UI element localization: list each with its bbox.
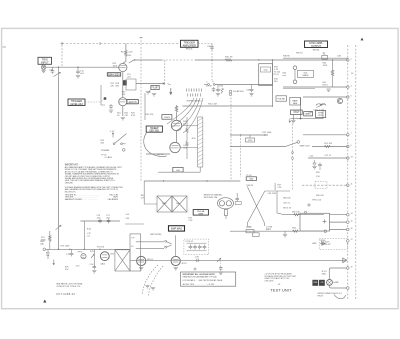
- svg-text:LAMP: LAMP: [334, 281, 340, 284]
- cathode resistor labels: [117, 113, 136, 117]
- svg-text:1M: 1M: [128, 55, 131, 57]
- tube V24B: [119, 98, 127, 106]
- switch SW25: [113, 134, 126, 145]
- svg-text:4.7K: 4.7K: [274, 69, 279, 71]
- wire: dashed bus 2: [355, 45, 357, 300]
- svg-text:27K: 27K: [122, 94, 126, 96]
- svg-text:R60 10K: R60 10K: [292, 212, 300, 214]
- resistor R30 on trigger rail: [225, 57, 233, 62]
- wire: drop from sync boxes with ground: [292, 114, 294, 120]
- wire: V2 cathode down to resistor chain: [122, 106, 124, 116]
- connector J1 body: [41, 65, 45, 69]
- block label RATE GEN: [290, 98, 301, 106]
- power supply box: [300, 213, 330, 231]
- tick on left border: [3, 46, 7, 48]
- resistor R60: [292, 212, 300, 216]
- svg-text:AMPLIFIER: AMPLIFIER: [183, 45, 196, 48]
- signal entry arrow: [170, 88, 172, 95]
- svg-text:C45: C45: [126, 218, 131, 220]
- svg-text:R72 100K: R72 100K: [61, 245, 71, 247]
- svg-text:.001: .001: [127, 77, 132, 79]
- svg-text:SN 101-UP: SN 101-UP: [321, 244, 331, 246]
- wire: second vertical x145: [144, 93, 146, 120]
- node junction on input line: [58, 67, 59, 68]
- terminal at right end of trigger rail: [347, 59, 350, 62]
- variable capacitor C40 arcs: [316, 104, 326, 108]
- wire: sync line y87: [283, 86, 348, 88]
- dashed note box: [319, 238, 347, 249]
- shield line above rail: [283, 57, 348, 59]
- power transformer tall box: [130, 234, 141, 271]
- note text block right: [264, 272, 297, 286]
- svg-text:6: 6: [351, 95, 352, 97]
- wire: plate supply drop: [125, 44, 127, 51]
- wire: dashed vertical x164.8: [164, 60, 166, 84]
- connector P1 pin ticks: [187, 89, 202, 97]
- svg-text:13: 13: [351, 156, 353, 158]
- svg-text:C65 4700: C65 4700: [268, 193, 278, 195]
- wire: jack to plug: [294, 70, 296, 81]
- capacitor C10: [49, 67, 54, 74]
- wire: line y135: [230, 134, 268, 136]
- svg-text:TP50 C56: TP50 C56: [312, 200, 322, 202]
- wire: plate output of V24A to trigger rail: [129, 60, 162, 63]
- revision triangle bottom-left: [43, 300, 46, 303]
- svg-text:R74 1M: R74 1M: [97, 247, 104, 249]
- node junction dots on y181: [163, 180, 164, 181]
- terminal swp out: [297, 141, 300, 144]
- svg-text:C: C: [206, 82, 208, 84]
- transformer T44 cell 2: [172, 196, 187, 212]
- svg-text:6AL5: 6AL5: [101, 263, 107, 266]
- svg-text:11: 11: [351, 184, 353, 186]
- terminal circle TP25: [122, 149, 125, 152]
- svg-text:R54: R54: [316, 172, 321, 174]
- svg-text:17: 17: [351, 239, 353, 241]
- stamp POWER dark box: [312, 280, 318, 286]
- svg-text:2.5K: 2.5K: [90, 264, 95, 266]
- svg-text:68: 68: [156, 87, 159, 89]
- node junction dark dot: [104, 97, 107, 100]
- svg-text:4: 4: [351, 85, 352, 87]
- svg-text:-1.5 AVG: -1.5 AVG: [104, 156, 112, 159]
- node dot at long vertical junction: [58, 249, 60, 251]
- ground arrow at line end: [289, 119, 291, 123]
- wire: feeder lines to right bus: [303, 134, 348, 136]
- svg-text:R45: R45: [192, 138, 197, 140]
- svg-text:15: 15: [351, 220, 353, 222]
- fuse F1: [322, 53, 328, 60]
- svg-text:LEVEL ADJ: LEVEL ADJ: [70, 103, 83, 106]
- svg-text:C25 47: C25 47: [206, 86, 213, 88]
- capacitor C70: [97, 215, 102, 223]
- capacitor C78 on bus: [195, 257, 200, 263]
- svg-text:(TD1): (TD1): [274, 74, 279, 76]
- ground under V72: [174, 268, 178, 270]
- wire: output line y97: [303, 96, 348, 98]
- wire: EXT drop with arrow: [48, 249, 55, 264]
- svg-text:C49 B+: C49 B+: [157, 154, 165, 156]
- cable note box: [298, 70, 314, 77]
- wire: dashed bus 1: [347, 45, 349, 300]
- crossover wires big X: [247, 187, 290, 227]
- inductor L40 box: [173, 167, 183, 172]
- wire: line y214.7: [284, 214, 324, 216]
- terminal output line: [347, 96, 350, 99]
- svg-text:8.2K: 8.2K: [131, 115, 136, 117]
- wire: dashed cable curves bottom-left: [142, 265, 163, 297]
- svg-text:OUTPUT: OUTPUT: [311, 45, 321, 48]
- svg-text:56K: 56K: [101, 143, 105, 145]
- svg-text:1K: 1K: [117, 115, 120, 117]
- svg-text:243: 243: [274, 81, 278, 83]
- wire: line y231.2 long: [230, 230, 325, 232]
- svg-text:WITH SWP CAL: WITH SWP CAL: [204, 196, 218, 199]
- terminal pair on dashed bus x231: [229, 90, 232, 93]
- wire: bottom of delay line across: [158, 167, 200, 172]
- svg-text:LINE: LINE: [312, 243, 317, 245]
- svg-text:R51 10K: R51 10K: [324, 143, 332, 145]
- small box TP60: [253, 233, 260, 237]
- svg-text:TP70: TP70: [78, 252, 84, 254]
- svg-text:B+: B+: [131, 246, 134, 248]
- wire: switch to V72 grid: [174, 235, 176, 256]
- capacitor C66 with box: [235, 193, 241, 205]
- svg-text:GEN SN1: GEN SN1: [149, 131, 160, 133]
- capacitor C73: [66, 249, 73, 256]
- svg-text:SN 101: SN 101: [186, 49, 194, 51]
- node dots on line y135: [240, 134, 241, 135]
- svg-text:MARKER/TRIGGER . . . . . . . .: MARKER/TRIGGER . . . . . . . . . . . . .…: [65, 198, 97, 201]
- block label PULSE SHAPER: [276, 96, 287, 101]
- block label dark SWEEP MAG: [169, 226, 185, 231]
- svg-text:R26: R26: [219, 86, 224, 88]
- potentiometer R73 with arrow: [91, 249, 94, 267]
- dual potentiometer R45 oval: [218, 198, 234, 209]
- wire: loop arc under indicator: [334, 294, 346, 298]
- capacitor under pot with ground: [92, 265, 96, 273]
- control label box LEVEL ADJ: [68, 99, 104, 106]
- block label TRIGGER AMPLIFIER: [181, 40, 199, 50]
- stamp ON dark box: [319, 280, 325, 286]
- transformer T44 cell 1: [157, 196, 172, 212]
- svg-text:C1001: C1001: [164, 117, 171, 119]
- svg-text:470: 470: [125, 115, 129, 117]
- svg-text:100K: 100K: [113, 65, 118, 67]
- svg-text:CEDURE.: CEDURE.: [65, 182, 74, 184]
- wire: dashed vertical x231: [230, 98, 232, 181]
- wire: dashed vertical x212: [211, 44, 213, 83]
- svg-text:AMPL: AMPL: [305, 113, 311, 116]
- wire: vertical into T44: [144, 181, 157, 204]
- svg-text:R73: R73: [90, 251, 95, 253]
- svg-text:C75: C75: [76, 266, 81, 268]
- variable capacitor C11 arrow: [54, 67, 61, 77]
- svg-text:16: 16: [351, 228, 353, 230]
- switch C+O: [204, 84, 215, 86]
- capacitor C55 stub: [318, 163, 322, 170]
- transistor Q40: [337, 98, 342, 103]
- small dashed box note: [315, 181, 327, 188]
- svg-text:120K: 120K: [323, 65, 328, 67]
- svg-text:SWP NORM: SWP NORM: [150, 234, 162, 236]
- svg-text:F1: F1: [323, 53, 326, 56]
- resistor R43: [175, 105, 177, 113]
- ground under V71: [139, 268, 143, 270]
- node junction dots on trigger rail: [134, 59, 135, 60]
- svg-text:CAL/BRATE: CAL/BRATE: [108, 198, 119, 201]
- resistor R51 on feeder: [324, 143, 332, 147]
- svg-text:POWER: POWER: [101, 150, 110, 152]
- wire: dashed rail segment: [162, 59, 195, 61]
- svg-text:SWP: SWP: [162, 203, 167, 205]
- connector J1 label box TRIG INPUT: [38, 57, 52, 64]
- svg-text:T70: T70: [131, 238, 134, 240]
- capacitor C33 to ground: [246, 85, 254, 96]
- svg-text:B24A 162V: B24A 162V: [108, 73, 120, 76]
- svg-text:B70: B70: [111, 254, 115, 256]
- svg-text:470: 470: [110, 86, 114, 88]
- svg-text:GEN: GEN: [198, 214, 203, 216]
- svg-text:C66 .01: C66 .01: [283, 203, 290, 205]
- svg-text:9: 9: [351, 145, 352, 147]
- svg-text:SYNC: SYNC: [294, 112, 300, 114]
- svg-text:READINGS IN DIAGRAM ARE TYPIC: READINGS IN DIAGRAM ARE TYPICAL: [183, 276, 217, 279]
- diode box TD1: [274, 72, 281, 77]
- terminal left end: [43, 248, 46, 251]
- svg-text:ALONG TRIG . . . . . . . . . .: ALONG TRIG . . . . . . . . . . . . +11 P…: [183, 283, 215, 286]
- wire: feeder y185: [302, 184, 348, 186]
- wire: calibrator line y249.3: [45, 248, 130, 250]
- terminal box TP40: [246, 175, 256, 181]
- terminal at right of y231 line: [324, 230, 327, 233]
- svg-text:R52 100K: R52 100K: [263, 132, 273, 134]
- terminal arrow at bus right: [343, 258, 347, 263]
- svg-text:SWP MAG: SWP MAG: [171, 228, 183, 231]
- pot arrow on left vertical: [56, 225, 62, 230]
- svg-text:.001: .001: [80, 73, 85, 75]
- label box C1001: [162, 115, 172, 120]
- node tick x168: [168, 84, 171, 86]
- pin number labels on bus: [351, 58, 353, 268]
- svg-text:CABLE: CABLE: [302, 74, 309, 77]
- wire: long heater bus y260.3: [130, 259, 346, 261]
- wire: vertical feed x141 dashed: [140, 37, 142, 181]
- wire: vertical x272.5: [272, 60, 274, 107]
- svg-text:686L: 686L: [322, 274, 326, 276]
- svg-text:19: 19: [351, 266, 353, 268]
- svg-text:Ø 7V: Ø 7V: [182, 263, 188, 265]
- delay network box: [259, 64, 273, 86]
- wire: line y181 horizontal: [144, 180, 240, 182]
- ground at J1: [41, 70, 45, 72]
- svg-text:C78: C78: [195, 257, 200, 259]
- resistor R50 box type 4700: [246, 135, 255, 142]
- capacitor C71: [106, 215, 111, 223]
- delay line hatched bar: [198, 117, 203, 167]
- block label box mid-right: [316, 111, 326, 118]
- wire: right vertical from C65 line: [277, 191, 284, 215]
- revision triangle top-right: [361, 38, 364, 41]
- svg-text:B.05: B.05: [87, 229, 92, 231]
- svg-text:-1.5V: -1.5V: [110, 131, 115, 133]
- svg-text:50Ω: 50Ω: [264, 70, 268, 72]
- wire: left stub x101: [101, 85, 105, 105]
- svg-text:TEST UNIT: TEST UNIT: [270, 289, 292, 293]
- tube V71: [137, 256, 146, 265]
- diode cluster right: [320, 242, 326, 245]
- wire: tube plates to delay line: [180, 126, 197, 148]
- block label SWEEP GENERATOR: [146, 126, 162, 133]
- wire: dashed link right of trigger box: [198, 43, 212, 45]
- wire: return line y118.6: [291, 109, 324, 119]
- svg-text:27K: 27K: [65, 269, 69, 271]
- svg-text:R62: R62: [292, 228, 297, 230]
- tube V40B: [170, 142, 180, 152]
- capacitor network under grid line: [216, 85, 225, 96]
- node rail junction: [99, 42, 101, 45]
- wire: grid line into V40B: [146, 153, 170, 155]
- svg-text:50Ω: 50Ω: [249, 179, 253, 181]
- resistor R40: [323, 60, 334, 87]
- svg-text:IMPORTANT:: IMPORTANT:: [65, 163, 79, 166]
- svg-text:CIRCUITS: CIRCUITS: [264, 281, 274, 283]
- node dots on calibrator line: [69, 249, 70, 250]
- svg-text:R56 47K: R56 47K: [316, 195, 324, 197]
- svg-text:CONDUCTOR TYPES TOL: CONDUCTOR TYPES TOL: [56, 286, 81, 288]
- resistor R70: [41, 231, 51, 249]
- svg-text:R42 47K: R42 47K: [146, 114, 154, 116]
- cable bundle diagonals: [167, 98, 203, 133]
- wire: grid return curve loop: [144, 132, 167, 156]
- wire: vertical from sync box area: [300, 97, 302, 119]
- wire: dashed vertical x240.6: [240, 135, 242, 177]
- resistor R26: [219, 86, 224, 94]
- svg-text:O: O: [213, 82, 215, 84]
- ground pair left of C21: [146, 92, 150, 94]
- jack J2: [293, 66, 297, 70]
- node junction dot: [300, 118, 302, 120]
- svg-text:R38 8K: R38 8K: [283, 56, 290, 58]
- resistor R19: [122, 92, 127, 96]
- wire: V40A plate up: [176, 113, 178, 120]
- svg-text:R65 8K: R65 8K: [246, 185, 253, 187]
- lamp DS70: [327, 280, 333, 286]
- wire: grid line y84.5: [215, 84, 272, 86]
- label box V24A plate volts: [107, 73, 120, 77]
- ground on y231 line: [283, 231, 287, 237]
- svg-text:+225: +225: [128, 52, 133, 54]
- wire: power box feeders: [330, 214, 348, 216]
- svg-text:2.2K: 2.2K: [277, 187, 282, 189]
- tube V72: [171, 256, 180, 265]
- diode CR50 to ground: [312, 160, 316, 169]
- plug P2: [293, 80, 297, 84]
- small boxes pair upper: [290, 110, 312, 116]
- svg-text:R66 10K: R66 10K: [283, 198, 291, 200]
- svg-text:.005: .005: [97, 217, 102, 219]
- resistor R14: [121, 50, 134, 58]
- ground bottom-left pair: [145, 286, 149, 288]
- wire: switch feed lines: [136, 242, 164, 249]
- screen network box: [126, 79, 136, 90]
- block label PULSE GEN: [193, 210, 208, 216]
- svg-text:68.1K: 68.1K: [323, 85, 329, 87]
- svg-text:2.2K: 2.2K: [188, 220, 193, 222]
- svg-text:FOR DETAILS . . . SEE TEKTRONI: FOR DETAILS . . . SEE TEKTRONIX AT CALIB: [183, 279, 223, 282]
- neon lamp B72: [81, 254, 86, 259]
- wire: lower grid return y106: [183, 105, 273, 107]
- wire: resistor to plate: [123, 58, 126, 64]
- indicator lamp wiring loop: [329, 268, 347, 288]
- node -1.5V arrow: [112, 133, 114, 138]
- wire: dashed drop x221 with capacitor and ground: [219, 260, 223, 274]
- svg-text:C53: C53: [310, 156, 315, 158]
- notice box with text: [181, 268, 236, 287]
- capacitor C25: [206, 86, 216, 92]
- ground under R41: [326, 89, 330, 91]
- svg-text:R35 2.2M: R35 2.2M: [208, 104, 217, 106]
- svg-text:X10 ATTEN: X10 ATTEN: [233, 90, 244, 93]
- wire: h-line y224 left stub: [125, 223, 144, 225]
- svg-text:SN 101: SN 101: [313, 49, 321, 51]
- wire: cathode chain V1 to V2: [122, 72, 124, 98]
- svg-text:C38: C38: [337, 56, 342, 58]
- capacitor C30 on dashed vertical: [207, 45, 214, 50]
- wire: swp out line y146 with diagonal: [230, 142, 298, 146]
- wire: h-line y221: [80, 220, 120, 222]
- tube V40A: [171, 120, 181, 130]
- terminal circles lower right cluster: [308, 204, 310, 206]
- svg-text:MILLIVOLTS.: MILLIVOLTS.: [65, 191, 77, 193]
- wire: long left vertical from C11 down to calibrator line: [58, 78, 60, 250]
- resistor R62: [292, 228, 298, 233]
- svg-text:C54: C54: [316, 176, 321, 178]
- ground under cathode: [121, 118, 125, 120]
- svg-text:4.7K: 4.7K: [141, 198, 146, 200]
- resistor box 2700: [246, 227, 254, 233]
- wire: screen line y83.5: [136, 83, 165, 85]
- tube V24A: [119, 63, 127, 71]
- svg-text:J4: J4: [351, 73, 354, 75]
- junction arrow right of cap bank: [217, 258, 221, 262]
- svg-text:L44: L44: [126, 214, 130, 216]
- svg-text:L40: L40: [176, 170, 180, 172]
- resistor R46 below pot: [224, 209, 227, 219]
- switch SW70 contacts: [165, 240, 172, 248]
- tube V70: [100, 252, 109, 261]
- svg-text:C52 13: C52 13: [324, 155, 331, 157]
- wire: trigger rail solid: [195, 59, 348, 61]
- resistor R57 stub: [275, 183, 282, 190]
- transformer T70 X cell: [115, 250, 130, 271]
- svg-text:-01: -01: [278, 284, 281, 286]
- resistor R46 column: [186, 117, 188, 159]
- svg-text:7: 7: [351, 133, 352, 135]
- wire: main input line: [46, 66, 119, 68]
- wire: dashed +300V rail: [62, 43, 181, 45]
- terminal on bus near indicator bottom: [347, 287, 350, 290]
- svg-text:CKT-0288-00: CKT-0288-00: [56, 294, 75, 296]
- capacitor bank C74-C77 in dashed box: [184, 239, 209, 255]
- block label SYNC AMPLIFIER: [305, 41, 328, 51]
- svg-text:INPUT: INPUT: [41, 61, 49, 65]
- capacitor C16 dark body: [123, 80, 127, 85]
- wire: between tubes: [176, 131, 178, 143]
- svg-text:A24 0.5: A24 0.5: [129, 101, 138, 104]
- svg-text:INTERCONNECT: INTERCONNECT: [187, 101, 203, 103]
- svg-text:PELM: PELM: [318, 295, 324, 297]
